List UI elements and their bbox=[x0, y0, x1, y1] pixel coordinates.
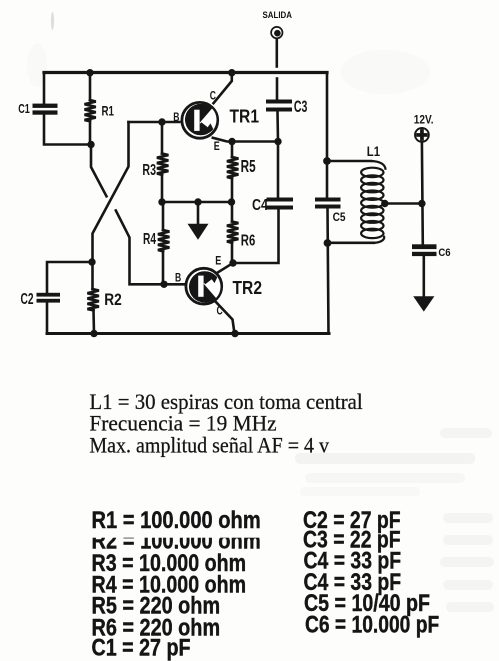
terminal SALIDA bbox=[271, 27, 282, 38]
svg-text:B: B bbox=[175, 271, 181, 285]
wire C6 to ground bbox=[422, 256, 425, 297]
svg-text:R2: R2 bbox=[104, 290, 122, 309]
svg-text:R5: R5 bbox=[241, 156, 256, 176]
svg-text:Max. amplitud señal AF = 4 v: Max. amplitud señal AF = 4 v bbox=[89, 432, 329, 457]
svg-text:C6 = 10.000 pF: C6 = 10.000 pF bbox=[305, 611, 439, 638]
junction R1 top rail bbox=[86, 69, 93, 76]
svg-text:B: B bbox=[173, 110, 179, 124]
resistor R3 bbox=[157, 122, 169, 202]
svg-text:C5: C5 bbox=[333, 210, 346, 224]
wire C2 bottom to rail bbox=[46, 303, 49, 334]
svg-text:TR2: TR2 bbox=[233, 278, 263, 299]
wire C3 to node bbox=[276, 112, 279, 142]
svg-text:12V.: 12V. bbox=[414, 113, 434, 127]
svg-text:R1: R1 bbox=[102, 103, 115, 118]
svg-text:R4: R4 bbox=[143, 231, 156, 248]
wire mid rail R3-R5 bbox=[162, 201, 232, 204]
wire ground stub (center) bbox=[197, 202, 200, 224]
wire emitter rail TR1 to C3/C4 node bbox=[232, 140, 278, 143]
resistor R2 bbox=[87, 262, 99, 334]
svg-text:C2: C2 bbox=[21, 291, 34, 308]
junction TR2 emitter / R6 / C4 bbox=[229, 259, 236, 266]
resistor R6 bbox=[227, 202, 239, 263]
node A (C1/R1 bottom) bbox=[87, 141, 94, 148]
wire right vertical upper (rail to C5) bbox=[326, 73, 329, 198]
wire L1 top feed bbox=[327, 160, 371, 163]
capacitor C4 bbox=[267, 198, 294, 210]
junction TR1 base / R3 bbox=[158, 118, 165, 125]
wire node to C4 bbox=[277, 142, 280, 198]
wire right vertical lower (C5 to bottom rail) bbox=[328, 209, 329, 334]
ground (right, below C6) bbox=[413, 296, 434, 311]
junction L1 center tap bbox=[381, 200, 388, 207]
junction C3/C4 bbox=[274, 138, 281, 145]
wire C1 bottom lead to node bbox=[44, 115, 91, 145]
junction 12V line tap bbox=[418, 200, 425, 207]
parts list left column bbox=[92, 507, 261, 661]
capacitor C2 bbox=[37, 293, 61, 303]
capacitor C1 bbox=[33, 104, 58, 115]
wire top rail bbox=[44, 71, 327, 74]
svg-text:C: C bbox=[217, 303, 223, 317]
svg-text:L1: L1 bbox=[367, 143, 380, 159]
svg-text:SALIDA: SALIDA bbox=[263, 10, 293, 20]
svg-text:R6: R6 bbox=[241, 233, 256, 250]
junction R2 bottom rail bbox=[90, 330, 97, 337]
wire C4 bottom to TR2 emitter node bbox=[233, 210, 279, 264]
capacitor C6 bbox=[412, 244, 437, 256]
wire TR2 emitter bbox=[216, 263, 234, 274]
svg-text:TR1: TR1 bbox=[230, 107, 260, 128]
svg-text:R3: R3 bbox=[142, 162, 156, 179]
junction ground stub bbox=[194, 198, 201, 205]
wire crossing diagonal A (R1 node to TR2 base, broken at hop) bbox=[91, 145, 107, 197]
svg-text:E: E bbox=[214, 139, 220, 153]
wire SALIDA to rail crossing bbox=[275, 39, 278, 67]
parts list right column bbox=[303, 507, 439, 639]
wire TR1 emitter bbox=[213, 138, 232, 142]
node B (C2/R2 top) bbox=[88, 258, 95, 265]
svg-text:C4: C4 bbox=[252, 197, 268, 214]
svg-text:C6: C6 bbox=[438, 247, 450, 259]
resistor R1 bbox=[85, 73, 96, 145]
wire TR2 collector bbox=[214, 300, 235, 334]
junction TR2 collector bottom rail bbox=[231, 330, 238, 337]
wire crossing diagonal B (TR1 base to R2 node) bbox=[93, 122, 129, 262]
inductor L1 bbox=[361, 161, 386, 243]
junction TR1 emitter / R5 bbox=[228, 138, 235, 145]
capacitor C3 bbox=[266, 100, 292, 112]
resistor R5 bbox=[227, 142, 239, 203]
wire node to C2 bbox=[47, 262, 92, 293]
junction R5/R6 bbox=[228, 198, 235, 205]
wire L1 bottom feed bbox=[329, 242, 375, 245]
junction tank top bbox=[323, 157, 331, 165]
transistor TR1 bbox=[182, 101, 221, 138]
junction tank bottom bbox=[324, 239, 332, 247]
svg-text:C1: C1 bbox=[18, 101, 30, 116]
svg-text:C3: C3 bbox=[294, 98, 308, 116]
junction TR2 base / R4 bbox=[160, 281, 167, 288]
svg-text:C: C bbox=[210, 89, 216, 103]
ground (center) bbox=[188, 224, 209, 240]
junction R3/R4 bbox=[158, 198, 165, 205]
wire TR1 base bbox=[129, 121, 180, 124]
wire L1 tap to 12V line bbox=[385, 202, 422, 205]
svg-text:E: E bbox=[215, 253, 221, 267]
capacitor C5 bbox=[315, 198, 341, 209]
svg-text:C1 = 27 pF: C1 = 27 pF bbox=[92, 635, 191, 661]
print defect: cut top of R2 line bbox=[88, 529, 269, 538]
resistor R4 bbox=[158, 202, 170, 284]
wire 12V drop bbox=[421, 142, 424, 244]
junction TR1 collector on rail bbox=[228, 69, 235, 76]
wire bottom rail bbox=[47, 332, 329, 335]
transistor TR2 bbox=[186, 268, 225, 305]
wire left drop from rail to C1 bbox=[43, 73, 46, 104]
terminal 12V bbox=[415, 128, 429, 142]
wire TR1 collector bbox=[214, 73, 232, 104]
